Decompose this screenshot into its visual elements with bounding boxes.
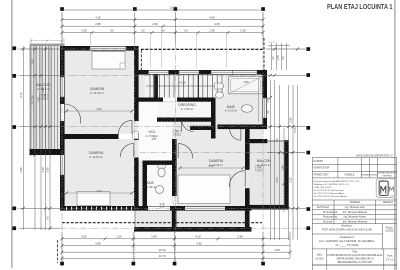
svg-text:10.70: 10.70 bbox=[170, 6, 177, 10]
svg-text:60: 60 bbox=[184, 29, 188, 33]
svg-text:3.70: 3.70 bbox=[19, 92, 23, 98]
small bath walls bbox=[143, 161, 177, 165]
dimension chains: top bbox=[62, 10, 263, 44]
svg-text:60: 60 bbox=[141, 29, 145, 33]
room labels bbox=[37, 83, 272, 189]
bath bottom wall bbox=[218, 125, 268, 130]
svg-text:14.70: 14.70 bbox=[159, 254, 166, 258]
dimension chains: left bbox=[20, 46, 60, 230]
svg-text:2.98: 2.98 bbox=[237, 235, 243, 239]
svg-text:P+1.50: P+1.50 bbox=[178, 83, 186, 85]
svg-text:90: 90 bbox=[110, 29, 114, 33]
radiator in hol bbox=[133, 131, 139, 138]
svg-text:Tel: 0752.553.127: Muresan Mih: Tel: 0752.553.127: Muresan Mihaela bbox=[314, 195, 348, 198]
bed in camera 16.33 bbox=[178, 175, 230, 204]
axis squares bbox=[12, 7, 310, 265]
svg-text:A: 6.12 m²: A: 6.12 m² bbox=[225, 109, 238, 113]
svg-text:Nr. ____, CP 41403: Nr. ____, CP 41403 bbox=[336, 243, 359, 247]
svg-text:NUMELE: NUMELE bbox=[350, 201, 361, 204]
svg-text:1.90: 1.90 bbox=[281, 165, 285, 171]
svg-text:A: 1.39 m²: A: 1.39 m² bbox=[144, 185, 157, 189]
dashed overhang outline bbox=[58, 38, 265, 263]
svg-text:Amplasament:: Amplasament: bbox=[340, 236, 355, 239]
bidet baie 6.12 bbox=[216, 92, 224, 98]
svg-text:90: 90 bbox=[161, 29, 165, 33]
logo bbox=[376, 179, 395, 198]
walls bbox=[30, 44, 289, 232]
door baie 6.12 bbox=[230, 129, 241, 140]
svg-text:2.95: 2.95 bbox=[152, 22, 158, 26]
mid vertical wall below bbox=[134, 158, 139, 207]
stair left wall bbox=[154, 74, 158, 101]
right balcony parapets bbox=[284, 140, 288, 210]
desk in camera 12.97 bbox=[77, 192, 110, 206]
svg-text:2.05: 2.05 bbox=[152, 139, 157, 141]
svg-text:2.90: 2.90 bbox=[240, 29, 246, 33]
stairs bbox=[146, 75, 224, 98]
left exterior wall bbox=[60, 46, 65, 210]
svg-text:55: 55 bbox=[266, 110, 270, 114]
wall between dressing and bath bbox=[211, 98, 216, 139]
svg-text:3.46: 3.46 bbox=[208, 164, 214, 168]
svg-text:NUMELE: NUMELE bbox=[345, 173, 355, 176]
svg-text:4.50: 4.50 bbox=[209, 16, 215, 20]
svg-text:4.10: 4.10 bbox=[195, 235, 201, 239]
svg-text:Data:: Data: bbox=[317, 254, 323, 257]
svg-text:ing. Muresan Ioan: ing. Muresan Ioan bbox=[345, 206, 366, 209]
svg-text:SEMNAT: SEMNAT bbox=[383, 201, 394, 204]
window gaps on left wall bbox=[61, 77, 64, 97]
svg-text:CAMERA: CAMERA bbox=[90, 87, 105, 91]
hall to dressing bbox=[182, 119, 194, 131]
svg-text:Proiect:: Proiect: bbox=[386, 227, 394, 230]
door camera 12.97 bbox=[120, 144, 134, 158]
north wall of main body with windows bbox=[139, 70, 268, 75]
svg-text:CAMERA: CAMERA bbox=[89, 151, 104, 155]
svg-text:Faza:: Faza: bbox=[387, 256, 393, 258]
svg-text:Tel: 0721.771.05: Muresan Adri: Tel: 0721.771.05: Muresan Adrian bbox=[314, 192, 346, 195]
right wall of top-left room bbox=[134, 46, 139, 121]
svg-text:2.20: 2.20 bbox=[289, 177, 293, 183]
svg-text:Desenat: Desenat bbox=[323, 220, 333, 223]
svg-text:HOL: HOL bbox=[149, 130, 156, 134]
svg-text:3.65: 3.65 bbox=[81, 235, 87, 239]
svg-text:Tel: 0721.621.631: Muresan Ioa: Tel: 0721.621.631: Muresan Ioan bbox=[314, 189, 345, 192]
svg-text:60: 60 bbox=[271, 56, 275, 60]
svg-text:SEMNATURA MODEL: SEMNATURA MODEL bbox=[377, 171, 398, 174]
right exterior wall bbox=[262, 70, 267, 129]
svg-text:BRANSAMENTE LA UTILITATI: BRANSAMENTE LA UTILITATI bbox=[338, 261, 373, 264]
bottom terrace parapet bbox=[134, 227, 252, 232]
dimension chains: bottom bbox=[62, 232, 290, 261]
extension lines above building bbox=[30, 28, 276, 69]
svg-text:1.85: 1.85 bbox=[37, 97, 41, 103]
toilet baie 1.39 bbox=[158, 168, 165, 177]
top wall left room bbox=[60, 46, 139, 51]
svg-text:BAIE: BAIE bbox=[146, 181, 154, 185]
svg-text:2.88: 2.88 bbox=[95, 22, 101, 26]
svg-text:2.10: 2.10 bbox=[257, 170, 262, 172]
step wall down to balcony bbox=[245, 125, 250, 144]
svg-text:2.85: 2.85 bbox=[46, 167, 50, 173]
svg-text:BALCON: BALCON bbox=[257, 159, 271, 163]
title block bbox=[312, 158, 396, 270]
svg-text:5.95: 5.95 bbox=[196, 241, 202, 245]
svg-text:6.15: 6.15 bbox=[293, 127, 297, 133]
svg-text:A: 12.97 m²: A: 12.97 m² bbox=[89, 155, 103, 159]
svg-text:1.80: 1.80 bbox=[274, 248, 280, 252]
svg-text:2.90: 2.90 bbox=[209, 29, 215, 33]
dimension chains: right bbox=[250, 43, 305, 240]
svg-text:REFERAT: REFERAT bbox=[383, 174, 393, 177]
svg-text:PROIECTANT: PROIECTANT bbox=[314, 173, 330, 176]
interior wall between left rooms bbox=[64, 134, 128, 139]
svg-text:PLAN ETAJ LOCUINTA 1: PLAN ETAJ LOCUINTA 1 bbox=[327, 4, 393, 11]
svg-text:1.35: 1.35 bbox=[276, 55, 280, 61]
svg-text:BALCON: BALCON bbox=[37, 83, 51, 87]
svg-text:3.10: 3.10 bbox=[284, 165, 288, 171]
svg-text:DRESSING: DRESSING bbox=[178, 103, 196, 107]
svg-text:4.90: 4.90 bbox=[19, 167, 23, 173]
svg-text:4.85: 4.85 bbox=[95, 241, 101, 245]
svg-text:Sef Proiect: Sef Proiect bbox=[317, 206, 330, 209]
svg-text:60: 60 bbox=[281, 56, 285, 60]
door balcony-west to camera 14.45 bbox=[65, 104, 81, 124]
svg-text:26.7.96: 26.7.96 bbox=[31, 95, 35, 105]
svg-text:arh. Muresan Mihaela: arh. Muresan Mihaela bbox=[343, 220, 368, 223]
svg-text:4.05: 4.05 bbox=[214, 22, 220, 26]
svg-text:4.10: 4.10 bbox=[95, 16, 101, 20]
svg-text:Proiectant General DMI ARHSTRU: Proiectant General DMI ARHSTRUCT S.R.L. … bbox=[314, 180, 362, 183]
dim stacks bbox=[41, 83, 262, 209]
svg-text:A: 14.45 m²: A: 14.45 m² bbox=[90, 91, 104, 95]
svg-text:61/2022: 61/2022 bbox=[385, 231, 394, 233]
dressing bottom wall bbox=[157, 118, 216, 122]
svg-text:D.T.A.C.: D.T.A.C. bbox=[386, 259, 395, 262]
svg-text:4.35: 4.35 bbox=[81, 29, 87, 33]
svg-text:CATEGORIA DE IMPORTANTA "C": CATEGORIA DE IMPORTANTA "C" bbox=[356, 154, 394, 157]
svg-text:Proiectat ing.: Proiectat ing. bbox=[323, 216, 338, 219]
svg-text:2.10: 2.10 bbox=[160, 207, 165, 209]
svg-text:2.35: 2.35 bbox=[41, 87, 45, 93]
svg-text:55: 55 bbox=[275, 138, 279, 142]
svg-text:arh. Muresan Mihaela: arh. Muresan Mihaela bbox=[343, 211, 368, 214]
toilet baie 6.12 bbox=[216, 83, 224, 89]
svg-text:VERIFICATOR: VERIFICATOR bbox=[314, 167, 330, 170]
svg-text:60: 60 bbox=[46, 216, 50, 220]
bottom exterior wall bbox=[60, 206, 252, 211]
svg-text:10.2022: 10.2022 bbox=[315, 259, 324, 261]
svg-text:CUI/B: 047] S 0776: CUI/B: 047] S 0776 bbox=[314, 187, 333, 189]
svg-text:2.65: 2.65 bbox=[151, 235, 157, 239]
svg-text:Com. CHINTENI, Sat CHINTENI, S: Com. CHINTENI, Sat CHINTENI, Str. DECEBA… bbox=[319, 239, 376, 243]
svg-text:Proiectat Arh: Proiectat Arh bbox=[323, 211, 338, 214]
door balcony-east bbox=[229, 171, 245, 187]
svg-text:2.46: 2.46 bbox=[96, 189, 102, 193]
bathtub baie 6.12 bbox=[229, 76, 263, 94]
axis lines bbox=[17, 12, 306, 262]
fixtures bbox=[156, 83, 253, 194]
furniture bbox=[77, 52, 230, 206]
svg-text:1.80: 1.80 bbox=[31, 59, 35, 65]
left balcony small arc bbox=[64, 97, 66, 104]
svg-text:Titlul:: Titlul: bbox=[352, 251, 358, 254]
svg-text:2.10: 2.10 bbox=[41, 98, 46, 100]
sink baie 1.39 bbox=[156, 186, 164, 194]
sink baie 6.12 bbox=[242, 105, 253, 113]
svg-text:2.10: 2.10 bbox=[175, 134, 180, 136]
svg-text:A: 3.46 m²: A: 3.46 m² bbox=[181, 107, 194, 111]
svg-text:BAIE: BAIE bbox=[227, 105, 235, 109]
svg-text:3.46: 3.46 bbox=[96, 107, 102, 111]
svg-text:1.20: 1.20 bbox=[116, 235, 122, 239]
wall under stairs bbox=[139, 98, 216, 102]
floors bbox=[31, 46, 285, 228]
svg-text:2.05: 2.05 bbox=[275, 177, 279, 183]
svg-text:13.40: 13.40 bbox=[159, 248, 166, 252]
svg-text:EXPERT: EXPERT bbox=[314, 160, 324, 163]
svg-text:1.30: 1.30 bbox=[41, 167, 45, 173]
svg-text:POP ADIN DORA si NOCAN NICOLAE: POP ADIN DORA si NOCAN NICOLAE bbox=[322, 228, 372, 232]
svg-text:ing. Muresan Adrian: ing. Muresan Adrian bbox=[344, 216, 367, 219]
door camera 14.45 bbox=[119, 120, 133, 133]
svg-text:1.80: 1.80 bbox=[243, 80, 249, 84]
svg-text:CAMERA: CAMERA bbox=[209, 159, 224, 163]
bed in camera 14.45 bbox=[92, 52, 125, 70]
door camera 16.33 bbox=[178, 144, 193, 159]
left balcony parapets bbox=[30, 44, 32, 156]
svg-text:Str/Adresa: M. CHINTENI, N 097: Str/Adresa: M. CHINTENI, N 097, CLJ bbox=[314, 183, 349, 186]
interior dims bbox=[65, 78, 259, 195]
doors bbox=[65, 97, 246, 187]
svg-text:3.95: 3.95 bbox=[289, 117, 293, 123]
svg-text:1.95: 1.95 bbox=[266, 97, 270, 103]
